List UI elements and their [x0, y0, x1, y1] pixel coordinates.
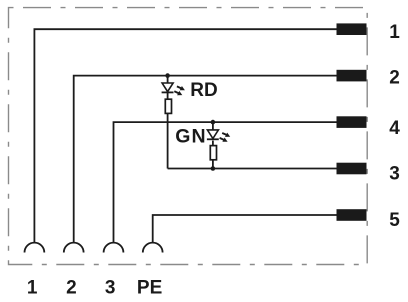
socket contact PE: [143, 243, 163, 253]
terminal 1: [337, 23, 367, 35]
svg-text:GN: GN: [175, 126, 206, 148]
LED RD light arrows: [174, 86, 185, 95]
junction dot node wire2/RD: [165, 73, 170, 78]
enclosure outline (dash-dot border): [9, 8, 368, 265]
svg-text:2: 2: [66, 277, 77, 298]
LED RD (red) symbol: [162, 83, 174, 92]
svg-text:4: 4: [389, 118, 400, 139]
svg-text:3: 3: [105, 277, 116, 298]
wire RD branch (anode from wire 2): [167, 76, 169, 83]
terminal 5: [337, 209, 367, 221]
junction dot node wire4/GN: [211, 120, 216, 125]
resistor R (GN branch): [210, 146, 216, 160]
wire GN branch (anode from wire 4): [212, 122, 214, 130]
svg-text:3: 3: [389, 164, 400, 185]
wire RD branch (cathode to resistor): [167, 92, 169, 99]
svg-text:RD: RD: [190, 80, 217, 101]
socket contact 3: [104, 243, 124, 253]
junction dot node wire3/GN: [211, 166, 216, 171]
wire pin3: contact 3 to terminal 4: [114, 122, 337, 243]
wire pin1: contact 1 to terminal 1: [34, 29, 336, 242]
svg-text:5: 5: [389, 210, 400, 231]
svg-text:1: 1: [27, 277, 38, 298]
wire RD branch (resistor to node 3): [167, 113, 169, 168]
svg-text:2: 2: [389, 68, 400, 89]
resistor R (RD branch): [165, 99, 171, 113]
terminal 3: [337, 163, 367, 175]
LED GN (green) symbol: [207, 130, 219, 139]
socket contact 1: [25, 243, 45, 253]
wire GN branch (resistor to node 3): [212, 160, 214, 169]
wire GN branch (cathode to resistor): [212, 141, 214, 146]
wire node3: LED branches to terminal 3: [168, 168, 337, 170]
socket contact 2: [64, 243, 84, 253]
terminal 4: [337, 116, 367, 128]
wire PE: contact PE to terminal 5: [153, 215, 337, 243]
terminal 2: [337, 70, 367, 82]
wire pin2: contact 2 to terminal 2: [74, 76, 337, 243]
svg-text:PE: PE: [137, 277, 162, 298]
LED GN light arrows: [220, 133, 231, 142]
svg-text:1: 1: [389, 22, 400, 43]
